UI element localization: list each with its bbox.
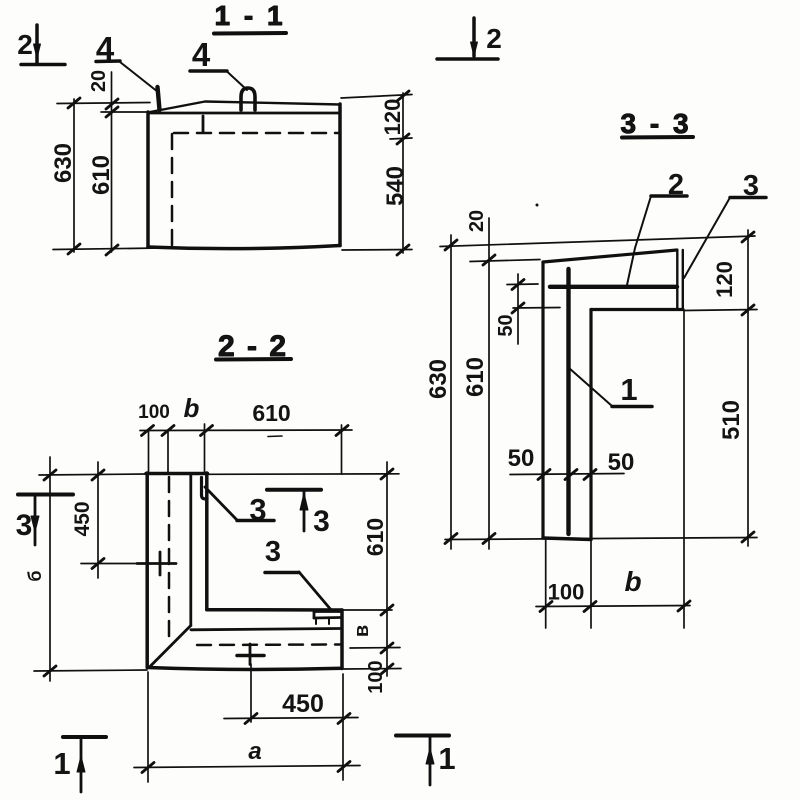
svg-text:20: 20 [466,210,488,232]
svg-text:б: б [25,570,45,581]
svg-text:3 - 3: 3 - 3 [620,108,691,139]
svg-text:3: 3 [16,509,33,542]
svg-text:2: 2 [17,29,33,60]
svg-text:100: 100 [138,402,170,423]
svg-text:3: 3 [313,505,330,538]
svg-text:1 - 1: 1 - 1 [214,0,285,31]
svg-text:610: 610 [252,400,290,426]
svg-text:100: 100 [365,660,387,693]
svg-text:a: a [248,738,261,765]
svg-text:100: 100 [548,580,585,605]
svg-text:50: 50 [495,314,517,336]
svg-text:b: b [184,393,200,423]
svg-text:610: 610 [462,357,489,397]
svg-text:1: 1 [53,746,70,781]
svg-text:b: b [624,566,641,597]
svg-text:610: 610 [88,155,115,195]
svg-text:510: 510 [718,400,745,440]
svg-text:50: 50 [608,449,635,476]
svg-text:3: 3 [265,536,281,568]
svg-text:50: 50 [508,445,535,472]
svg-text:450: 450 [282,690,324,718]
svg-text:630: 630 [425,359,452,399]
svg-text:610: 610 [362,518,388,556]
svg-text:2: 2 [486,23,502,54]
svg-text:20: 20 [88,70,110,92]
svg-text:450: 450 [71,501,94,536]
svg-text:1: 1 [620,372,637,407]
svg-text:120: 120 [712,261,737,298]
svg-text:120: 120 [380,99,405,136]
svg-text:630: 630 [50,143,77,183]
svg-text:540: 540 [382,166,409,206]
svg-text:1: 1 [438,741,455,776]
svg-text:в: в [351,625,373,637]
svg-text:4: 4 [192,36,211,73]
